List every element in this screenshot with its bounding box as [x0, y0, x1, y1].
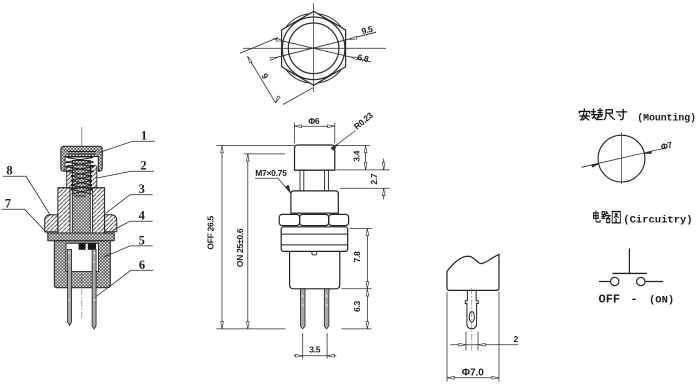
terminal lug [465, 290, 478, 328]
keying tab [312, 251, 317, 255]
char Zhuang [592, 109, 603, 120]
left contact block [79, 243, 86, 250]
dim line 9.5 [270, 32, 376, 60]
svg-text:5: 5 [139, 233, 145, 247]
front right pin [324, 289, 329, 329]
cap front [295, 145, 335, 170]
spring (item 2) zigzag [67, 157, 94, 196]
dim 7.8 [342, 229, 373, 289]
svg-text:3: 3 [139, 182, 145, 196]
chamfer arc bottom-right [318, 69, 342, 83]
svg-text:6: 6 [139, 258, 145, 272]
dim 9 extension line lower [283, 88, 313, 105]
svg-text:-: - [631, 293, 638, 307]
dim 9 extension line upper [240, 38, 278, 54]
centerline above cap [81, 127, 83, 146]
svg-text:(Circuitry): (Circuitry) [623, 215, 692, 227]
cap bottom edge [295, 169, 335, 171]
leader M7x0.75 [255, 178, 293, 193]
inner circle (hole 6.8) [288, 23, 339, 74]
outer circle (across flats) [282, 17, 345, 80]
svg-text:7.8: 7.8 [352, 251, 362, 262]
dim line 6.8 [273, 38, 371, 62]
cap (button, item 1): hatched inverted U [61, 146, 103, 171]
svg-text:4: 4 [139, 209, 146, 223]
left wing nut (item 8/7) [45, 215, 58, 232]
dim 3.5 [294, 333, 337, 359]
svg-text:(Mounting): (Mounting) [637, 112, 696, 123]
washer plate [48, 233, 114, 241]
lug centerline [471, 288, 473, 351]
switch symbol: actuator line [628, 248, 630, 273]
body with wavy break top [447, 255, 499, 291]
title: circuitry (CJK paths) [594, 211, 621, 223]
lower body [290, 251, 340, 288]
char Lu [602, 211, 611, 222]
lug hole [469, 312, 474, 323]
svg-text:3.4: 3.4 [351, 150, 361, 161]
char Tu [612, 212, 620, 223]
threaded bushing [291, 191, 338, 213]
main body right wall [93, 188, 105, 233]
hex nut front: right lobe [329, 214, 349, 225]
horizontal centerline [243, 47, 386, 49]
dim 3.4 [337, 146, 390, 170]
svg-text:2: 2 [514, 334, 519, 344]
plunger column (crosshatched) [72, 161, 90, 234]
svg-text:Φ6: Φ6 [308, 116, 320, 126]
upper bushing left wall [67, 165, 73, 188]
svg-text:M7×0.75: M7×0.75 [255, 168, 287, 178]
dim 2 [450, 332, 518, 351]
leader 8 [3, 176, 51, 215]
chamfer arc bottom-left [286, 69, 310, 83]
hex nut front: center lobe [300, 214, 329, 225]
leader 4 [113, 221, 153, 230]
lead right [645, 281, 663, 283]
body top edge [58, 187, 105, 189]
left pin (item 6) [68, 249, 72, 325]
char An [579, 109, 590, 120]
svg-text:8: 8 [6, 164, 12, 178]
dim ON 25+-0.6 [244, 154, 285, 329]
plunger head lines in cavity [68, 152, 97, 155]
housing (item 5) [54, 241, 110, 288]
housing interior [66, 243, 99, 271]
washer stack [281, 227, 348, 252]
char Cun [616, 109, 626, 119]
char Dian [594, 211, 601, 222]
lead left [599, 281, 610, 283]
svg-text:6.3: 6.3 [352, 300, 362, 311]
main body (item 3) outer [58, 188, 70, 233]
right pin [92, 249, 96, 329]
char Chi [604, 110, 614, 120]
svg-text:2: 2 [140, 159, 146, 173]
leader 2 [97, 171, 154, 178]
leader 6 [96, 270, 154, 297]
pin highlights [68, 252, 95, 301]
svg-text:ON 25±0.6: ON 25±0.6 [235, 228, 245, 267]
leader 3 [106, 195, 153, 214]
right wing nut [105, 215, 117, 232]
upper bushing right wall [91, 165, 97, 188]
mounting dim line [582, 148, 668, 168]
svg-text:(ON): (ON) [649, 295, 674, 307]
dim Phi7.0 [447, 292, 499, 382]
cap inner cavity [65, 157, 98, 172]
neck lines [300, 170, 328, 191]
leader 7 [2, 209, 48, 233]
centerline through housing [81, 243, 83, 320]
svg-text:2.7: 2.7 [369, 173, 379, 184]
chamfer arc top-right [318, 14, 342, 28]
switch contact left [611, 277, 619, 285]
bottom extension line [216, 328, 285, 330]
svg-text:3.5: 3.5 [309, 344, 320, 354]
svg-text:Φ7.0: Φ7.0 [462, 368, 485, 379]
switch symbol: bar [613, 272, 647, 274]
dim 2.7 [340, 159, 390, 200]
dim 9 dimension line with arrows [246, 56, 280, 104]
hexagon outline [282, 11, 346, 85]
mounting circle [598, 135, 645, 182]
chamfer arc top-left [286, 14, 310, 28]
leader 5 [104, 246, 153, 257]
svg-text:OFF: OFF [599, 293, 621, 307]
dim OFF 26.5 [216, 146, 294, 329]
title: mounting (CJK drawn as paths) [579, 109, 626, 120]
right contact block [88, 243, 96, 250]
circle vertical centerline [621, 132, 623, 184]
hex nut front: left lobe [279, 214, 299, 225]
front left pin [300, 289, 305, 329]
switch contact right [637, 277, 645, 285]
vertical centerline [313, 3, 315, 92]
svg-text:1: 1 [141, 129, 147, 143]
svg-text:7: 7 [5, 197, 11, 211]
leader R0.23 [331, 131, 355, 151]
svg-text:OFF 26.5: OFF 26.5 [206, 215, 216, 249]
dim 6.3 [366, 289, 369, 329]
dim Phi6 above cap [295, 123, 335, 143]
leader 1 [100, 141, 155, 152]
